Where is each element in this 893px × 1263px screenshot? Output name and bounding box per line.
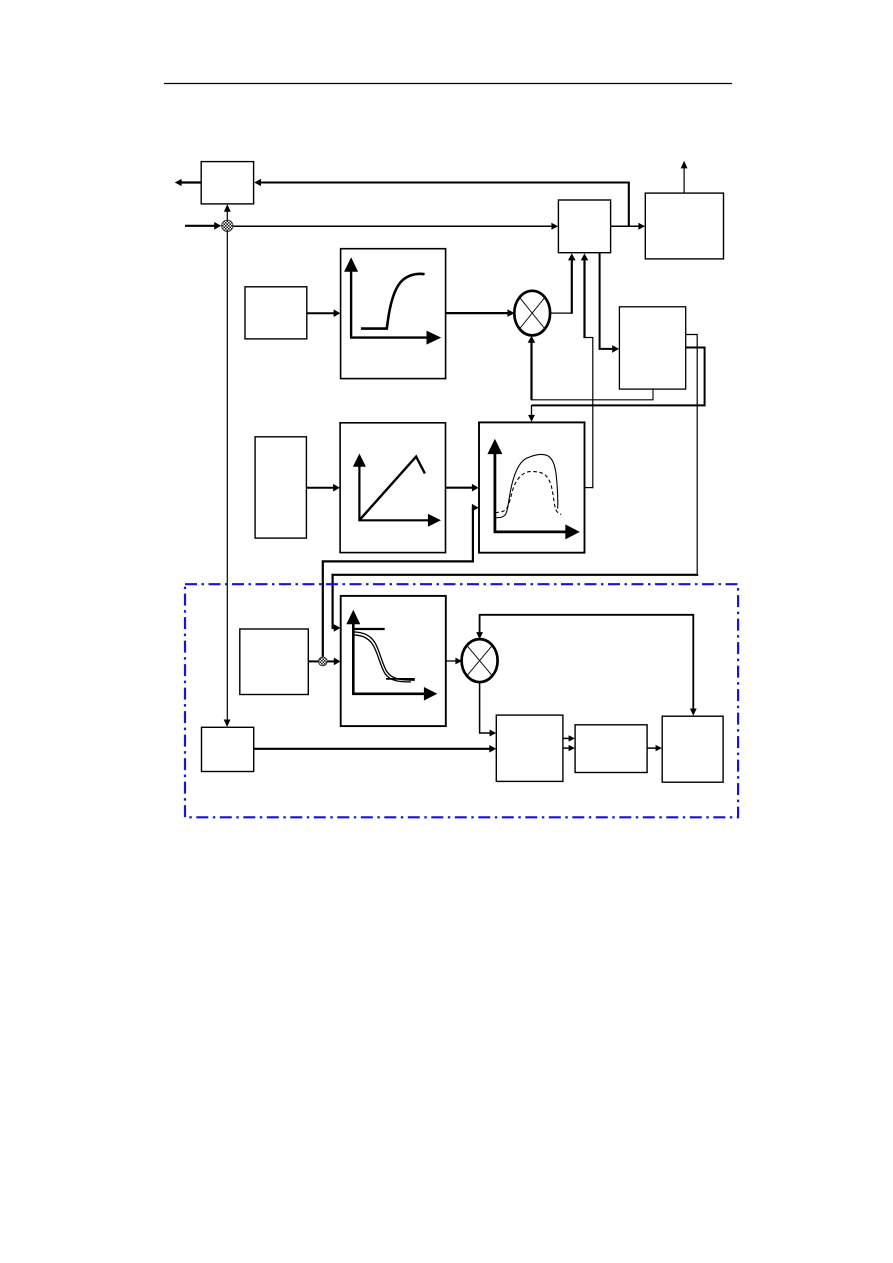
G4 x-axis: [352, 692, 425, 695]
wire: G4 into multiplier X2: [446, 660, 457, 662]
wire: J1 up into T1 bottom: [226, 211, 228, 220]
G2 ramp line: [360, 457, 425, 520]
G2 x-axis: [358, 519, 429, 521]
wire: feedback from B1 output line up and left into T1 right edge: [260, 183, 629, 227]
wire: T1 output arrow to left: [180, 181, 201, 183]
G1 curve (flat then rising saturation): [361, 274, 425, 329]
wire W2: echo tap down, long left, down into G4 left edge (top input): [333, 574, 698, 628]
wire: B1 right into B2: [611, 225, 640, 227]
wire: D5 long output right into D2 left edge: [254, 748, 490, 750]
G4 upper asymptote segment: [352, 628, 385, 630]
wire: G3 output right, up riser, jog, into B1 bottom: [585, 487, 593, 489]
G4 falling S-curve (double stroke): [353, 632, 415, 680]
G4 y-axis: [352, 623, 355, 694]
wire: drop down into G3 top: [531, 405, 533, 416]
header rule: [164, 83, 732, 85]
G4 lower asymptote segment: [386, 678, 415, 680]
wire: G1 into multiplier X1: [446, 312, 509, 314]
wire: B2 output arrow upward: [683, 167, 685, 193]
box G4 (droop curve graph): [341, 596, 446, 726]
box S1 (stacked block front): [619, 307, 685, 389]
box G2 (ramp graph): [340, 423, 445, 553]
wire: G2 into G3: [446, 487, 474, 489]
box M1 (row-1 source block): [245, 287, 307, 339]
box T1 (top-left output block): [201, 162, 253, 204]
dashed blue subsystem boundary: [185, 584, 738, 817]
wire: D1 right into node J2: [308, 660, 318, 662]
wire: M1 into G1: [307, 312, 335, 314]
G3 dashed bell curve: [495, 472, 561, 515]
box G1 (saturation curve graph): [341, 249, 446, 379]
wire: X2 output down then right into D2 left edge: [480, 682, 491, 733]
box M2 (row-2 source block): [255, 437, 306, 538]
wire: X1 output right then up into B1 bottom: [550, 312, 572, 314]
wire: J1 right into B1 left edge: [233, 225, 552, 227]
node J1 (hatched summing junction): [222, 220, 233, 231]
wire: S1 bottom tap left to X1 riser (thin): [532, 389, 653, 400]
wire: D2 to D3 lower arrow: [563, 747, 570, 749]
G3 solid bell curve: [496, 454, 558, 517]
wire: J1 long vertical down into D5 top: [226, 232, 228, 721]
box B1 (upper merge block): [558, 200, 610, 253]
wire: riser up into X1 bottom: [530, 342, 532, 400]
box D4: [662, 716, 723, 782]
stacked box S1 echo outline 1: [686, 335, 697, 575]
box D2: [496, 715, 563, 781]
G1 y-axis: [350, 269, 352, 338]
G3 x-axis: [494, 531, 567, 534]
multiplier X2 (circle with X): [462, 639, 498, 682]
wire: D2 to D3 upper arrow: [563, 737, 570, 739]
G1 x-axis: [350, 336, 428, 338]
wire: B1 output down then right into stacked box S1: [600, 253, 613, 349]
G2 y-axis: [358, 465, 360, 520]
wire: top feeder into X2 and down into D4 top: [480, 615, 694, 710]
box D3: [575, 725, 647, 773]
box G3 (bell curves graph): [479, 422, 585, 552]
wire: M2 into G2: [306, 487, 334, 489]
node J2 (hatched junction): [318, 657, 327, 666]
box D5 (bottom-left block): [202, 727, 254, 771]
wire: J2 right into G4 left edge: [327, 660, 335, 662]
multiplier X1 (circle with X): [514, 291, 550, 336]
G3 y-axis: [493, 452, 496, 532]
wire W1: node J2 up, right, up into G3 left edge (second input): [323, 508, 474, 657]
box D1 (dashed-region source block): [240, 629, 308, 695]
box B2 (top-right block): [645, 193, 723, 259]
stacked box S1 echo outline 2: [532, 348, 705, 406]
wire: main input from left into node J1: [185, 225, 216, 227]
wire: D3 to D4 arrow: [647, 747, 656, 749]
